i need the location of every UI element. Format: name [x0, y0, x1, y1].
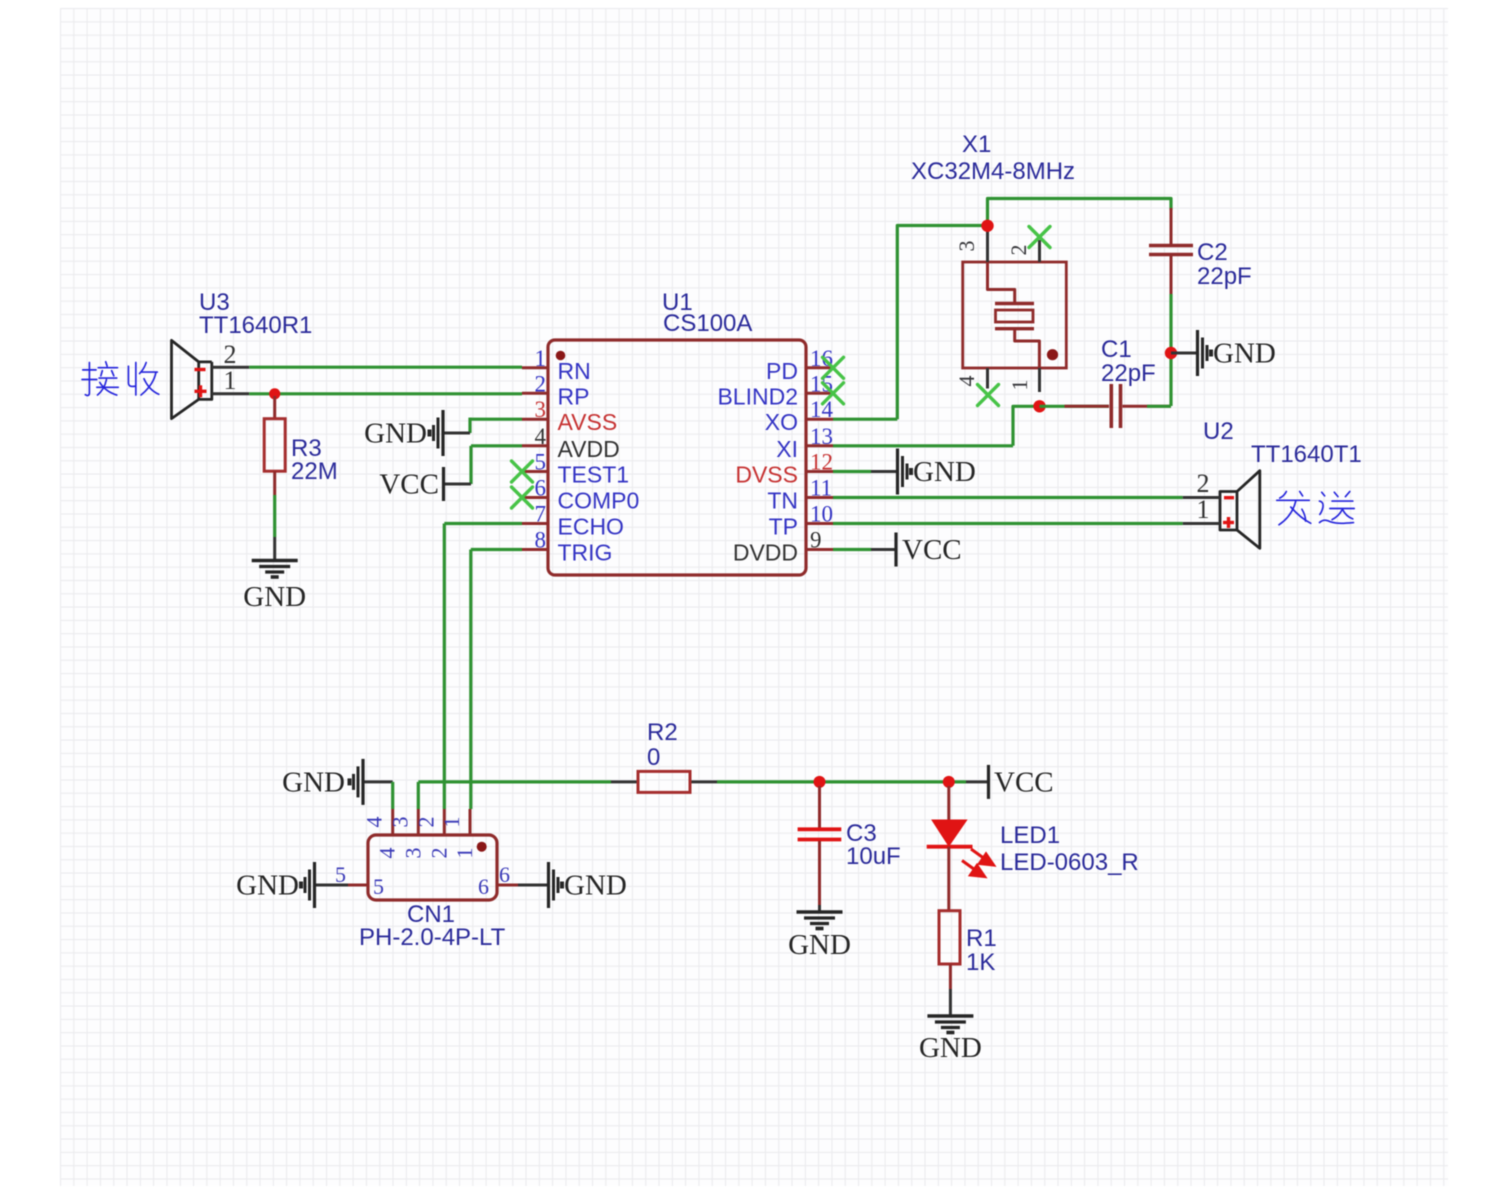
svg-text:1: 1: [452, 848, 477, 859]
svg-text:1: 1: [1197, 495, 1210, 524]
svg-text:U2: U2: [1203, 418, 1234, 445]
svg-text:7: 7: [535, 502, 547, 527]
wire R3 to ground: [273, 495, 276, 561]
wire DVDD net (U1.9 to VCC flag): [833, 548, 896, 551]
svg-text:4: 4: [535, 424, 547, 449]
wire CN1 pin 3 to VCC rail: [417, 782, 420, 809]
wire DVSS net (U1.12 to GND flag): [833, 470, 896, 473]
svg-text:ECHO: ECHO: [558, 514, 624, 540]
wire XI net (U1.13 to X1.1/C1): [833, 406, 1040, 446]
svg-text:BLIND2: BLIND2: [717, 383, 798, 409]
svg-text:COMP0: COMP0: [558, 488, 640, 514]
svg-text:TRIG: TRIG: [558, 540, 613, 566]
resistor R1 1K: [939, 911, 997, 976]
wire TRIG net (pin8 to CN1.1): [471, 550, 522, 810]
svg-text:TEST1: TEST1: [558, 462, 630, 488]
svg-text:RP: RP: [558, 383, 590, 409]
CN1 pin 1 stub: [439, 809, 477, 859]
ground flag GND at CN1 pin 5: [236, 862, 348, 908]
wire net RP (U3.1 to U1.2): [249, 392, 522, 395]
ground symbol below R1: [919, 1016, 982, 1064]
U1 pin 10 TP: [769, 502, 833, 540]
U1 pin 9 DVDD: [733, 528, 833, 566]
svg-text:13: 13: [810, 424, 833, 449]
resistor R2 0: [638, 719, 690, 792]
svg-text:XI: XI: [776, 436, 798, 462]
svg-text:C1: C1: [1101, 336, 1132, 363]
svg-text:6: 6: [499, 862, 510, 887]
svg-text:3: 3: [400, 848, 425, 859]
wire VCC rail (R2 to VCC flag): [418, 780, 988, 783]
svg-text:10: 10: [810, 502, 833, 527]
svg-text:1: 1: [1007, 380, 1032, 391]
crystal X1 XC32M4-8MHz: [911, 131, 1075, 368]
CN1 pin 3 stub: [387, 809, 425, 859]
wire net RN (U3.2 to U1.1): [249, 366, 522, 369]
U1 pin 12 DVSS: [735, 450, 833, 488]
junction at C2/GND flag: [1165, 347, 1177, 359]
svg-text:DVDD: DVDD: [733, 540, 798, 566]
U1 pin 14 XO: [765, 397, 834, 435]
svg-text:GND: GND: [243, 581, 306, 613]
svg-text:3: 3: [954, 241, 979, 252]
power flag VCC at rail: [989, 765, 1054, 799]
U1 pin 6 COMP0: [522, 476, 639, 514]
resistor R3 22M: [264, 396, 337, 495]
svg-text:GND: GND: [282, 767, 345, 799]
svg-text:1: 1: [224, 366, 237, 395]
capacitor C2 22pF: [1149, 208, 1252, 294]
svg-text:1K: 1K: [966, 949, 995, 976]
svg-text:DVSS: DVSS: [735, 462, 798, 488]
svg-text:22pF: 22pF: [1101, 360, 1156, 387]
no-connect X on U1 pin 15: [823, 383, 844, 404]
CN1 pin 2 stub: [413, 809, 451, 859]
wire R1 to ground: [949, 964, 952, 1016]
label 接收 (receive): [82, 362, 118, 396]
svg-text:4: 4: [954, 376, 979, 387]
svg-text:5: 5: [535, 450, 547, 475]
svg-text:C2: C2: [1197, 239, 1228, 266]
U1 pin 1 RN: [522, 346, 591, 384]
svg-text:XC32M4-8MHz: XC32M4-8MHz: [911, 158, 1075, 185]
transducer U2 TT1640T1 (transmitter): [1203, 418, 1362, 548]
svg-text:5: 5: [373, 874, 384, 899]
svg-text:3: 3: [535, 397, 547, 422]
svg-text:3: 3: [387, 817, 412, 828]
capacitor C1 22pF: [1040, 336, 1172, 428]
svg-text:R2: R2: [647, 719, 678, 746]
svg-text:GND: GND: [919, 1032, 982, 1064]
ground symbol below R3: [243, 561, 306, 614]
label 收 (part of 接收): [128, 362, 158, 395]
svg-text:VCC: VCC: [994, 767, 1054, 799]
svg-text:22M: 22M: [291, 458, 338, 485]
svg-text:AVDD: AVDD: [558, 436, 620, 462]
svg-text:XO: XO: [765, 409, 798, 435]
svg-text:X1: X1: [962, 131, 991, 158]
power flag VCC at AVDD: [379, 467, 443, 501]
junction at R3 top: [269, 388, 280, 399]
U3 pin 2 stub: [212, 340, 249, 369]
U1 pin 15 BLIND2: [717, 371, 833, 409]
svg-text:2: 2: [426, 848, 451, 859]
wire ECHO net (pin7 to CN1.2): [444, 524, 522, 810]
svg-text:R1: R1: [966, 925, 997, 952]
wire TP net (U1.10 to U2.1): [833, 522, 1183, 525]
ground flag GND at AVSS: [364, 410, 443, 456]
svg-text:5: 5: [335, 862, 346, 887]
ground flag GND right of C2: [1171, 330, 1276, 376]
U1 pin 4 AVDD: [522, 424, 620, 462]
U1 pin 16 PD: [766, 346, 833, 384]
svg-text:8: 8: [535, 528, 547, 553]
svg-text:14: 14: [810, 397, 834, 422]
wire XO net (U1.14 up to X1.3 and C2): [833, 199, 1171, 420]
U1 pin 11 TN: [767, 476, 833, 514]
label 送 (part of 发送): [1319, 491, 1354, 523]
ground symbol below C3: [788, 912, 851, 961]
junction at X1 pin 3: [981, 220, 993, 232]
svg-text:TP: TP: [769, 514, 798, 540]
U2 pin 1 stub: [1183, 495, 1220, 524]
capacitor C3 10uF: [798, 786, 901, 905]
svg-text:TN: TN: [767, 488, 798, 514]
svg-text:CS100A: CS100A: [663, 310, 752, 337]
svg-text:LED-0603_R: LED-0603_R: [1000, 849, 1139, 876]
svg-text:TT1640T1: TT1640T1: [1251, 441, 1362, 468]
junction at LED1: [943, 776, 955, 788]
power flag VCC at DVDD: [896, 533, 962, 567]
CN1 pin 5 stub: [335, 862, 384, 899]
svg-text:LED1: LED1: [1000, 822, 1060, 849]
no-connect X on X1 pin 2: [1029, 227, 1050, 248]
svg-text:GND: GND: [236, 870, 299, 902]
no-connect X on U1 pin 6: [512, 487, 533, 508]
connector CN1 PH-2.0-4P-LT: [359, 835, 506, 951]
LED LED1 LED-0603_R: [927, 786, 1139, 911]
transducer U3 TT1640R1 (receiver): [172, 289, 313, 419]
svg-text:GND: GND: [1213, 338, 1276, 370]
svg-text:PH-2.0-4P-LT: PH-2.0-4P-LT: [359, 924, 506, 951]
X1 pin 2 stub: [1006, 240, 1040, 262]
svg-text:TT1640R1: TT1640R1: [199, 312, 312, 339]
junction at X1 pin 1 / C1: [1033, 400, 1045, 412]
ground flag GND at DVSS: [898, 449, 976, 495]
svg-text:6: 6: [478, 874, 489, 899]
svg-text:GND: GND: [564, 870, 627, 902]
X1 pin 3 stub: [954, 229, 988, 262]
svg-text:4: 4: [362, 817, 387, 828]
label 发送 (transmit): [1277, 491, 1311, 524]
svg-text:11: 11: [810, 476, 832, 501]
svg-text:10uF: 10uF: [846, 843, 901, 870]
wire AVDD net (pin4 to VCC flag): [444, 446, 523, 484]
U1 pin 13 XI: [776, 424, 833, 462]
svg-text:1: 1: [535, 346, 547, 371]
svg-text:1: 1: [439, 817, 464, 828]
wire C3 to ground: [818, 905, 821, 912]
svg-text:2: 2: [1006, 245, 1031, 256]
svg-text:9: 9: [810, 528, 822, 553]
no-connect X on U1 pin 16: [823, 357, 844, 378]
svg-text:4: 4: [375, 848, 400, 859]
svg-text:2: 2: [1197, 469, 1210, 498]
CN1 pin 6 stub: [478, 862, 518, 899]
svg-text:12: 12: [810, 450, 833, 475]
no-connect X on U1 pin 5: [512, 461, 533, 482]
svg-text:2: 2: [413, 817, 438, 828]
U1 pin 2 RP: [522, 371, 589, 409]
U2 pin 2 stub: [1183, 469, 1220, 498]
X1 pin 1 stub: [1007, 368, 1040, 392]
no-connect X on X1 pin 4: [978, 385, 999, 406]
ground flag GND at CN1 pin 6: [518, 862, 627, 908]
svg-text:2: 2: [224, 340, 237, 369]
svg-text:PD: PD: [766, 358, 798, 384]
svg-text:6: 6: [535, 476, 547, 501]
IC U1 CS100A: [548, 289, 806, 575]
U1 pin 3 AVSS: [522, 397, 617, 435]
svg-text:GND: GND: [913, 456, 976, 488]
wire TN net (U1.11 to U2.2): [833, 496, 1183, 499]
U1 pin 8 TRIG: [522, 528, 612, 566]
U3 pin 1 stub: [212, 366, 249, 395]
svg-text:0: 0: [647, 744, 660, 771]
U1 pin 5 TEST1: [522, 450, 629, 488]
wire C2 bottom to GND junction: [1169, 294, 1172, 406]
U1 pin 7 ECHO: [522, 502, 624, 540]
svg-text:2: 2: [535, 371, 547, 396]
svg-text:AVSS: AVSS: [558, 409, 618, 435]
junction at C3: [814, 776, 826, 788]
svg-text:GND: GND: [788, 929, 851, 961]
svg-text:VCC: VCC: [379, 469, 439, 501]
CN1 pin 4 stub: [362, 809, 400, 859]
svg-text:VCC: VCC: [902, 534, 962, 566]
wire AVSS net (pin3 to GND flag): [445, 418, 523, 433]
X1 pin 4 stub: [954, 368, 988, 389]
svg-text:GND: GND: [364, 418, 427, 450]
ground flag GND at CN1 pin 4: [282, 759, 393, 809]
svg-text:RN: RN: [558, 358, 591, 384]
svg-text:22pF: 22pF: [1197, 263, 1252, 290]
